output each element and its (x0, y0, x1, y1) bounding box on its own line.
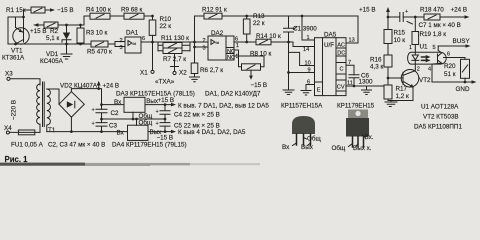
wire bridge plus to +24 rail (71, 89, 101, 110)
svg-text:Вх: Вх (282, 144, 290, 151)
svg-text:1: 1 (307, 35, 310, 41)
op-amp DA2 (203, 30, 239, 61)
wire DA2 output line (234, 41, 256, 43)
svg-text:R1 15к: R1 15к (6, 7, 26, 14)
node DA3 input tap (100, 103, 103, 106)
wire R2 to R3/R4 (58, 24, 84, 26)
wire R2 node up to R4 (84, 16, 90, 25)
+15V power flag (top) (359, 7, 390, 30)
svg-text:КС405А: КС405А (40, 58, 64, 65)
bottom rail (minus) (47, 131, 128, 133)
node R10 bottom (151, 41, 154, 44)
capacitor C5 (156, 119, 220, 132)
regulator DA4 (117, 125, 163, 140)
svg-text:К выв 4 DA1, DA2, DA5: К выв 4 DA1, DA2, DA5 (178, 129, 246, 136)
svg-text:Вых: Вых (301, 144, 314, 151)
wire U1 pin5 to BUSY (438, 45, 466, 47)
svg-text:C1 3900: C1 3900 (293, 26, 317, 33)
resistor R15 (384, 30, 406, 56)
node C4 tap (164, 103, 167, 106)
node R3 on rail (79, 43, 82, 46)
resistor R12 (202, 7, 227, 20)
svg-text:DA5: DA5 (324, 32, 337, 39)
svg-text:R4 100 к: R4 100 к (86, 7, 111, 14)
svg-text:R12 91 к: R12 91 к (202, 7, 227, 14)
package drawing KR1157EN15A (281, 103, 323, 151)
svg-text:−15 В: −15 В (57, 7, 74, 14)
regulator DA3 (114, 91, 195, 113)
wire DA2 balance pin1 (234, 50, 242, 67)
svg-text:X2: X2 (179, 70, 187, 77)
wire DA3 output +15V (145, 104, 172, 106)
svg-text:R19 1,8 к: R19 1,8 к (420, 31, 447, 38)
+15V power flag (left arrow) (30, 23, 47, 35)
capacitor C7 (388, 9, 461, 29)
wire R1 to -15V arrow (45, 9, 50, 11)
capacitor C1 (284, 16, 318, 42)
resistor R6 (191, 63, 223, 74)
zener diode VD1 (40, 25, 71, 65)
wire R1 left to VT1 base (24, 10, 32, 30)
node VT2 base (387, 77, 390, 80)
svg-text:U1 АОТ128А: U1 АОТ128А (421, 104, 459, 111)
capacitor C3 (92, 121, 118, 132)
wire bridge minus drop (70, 117, 72, 132)
svg-text:R10: R10 (160, 16, 172, 23)
resistor R19 (412, 17, 446, 50)
svg-text:VT2 КТ503В: VT2 КТ503В (423, 114, 459, 121)
node bridge minus (70, 130, 73, 133)
part list middle (48, 91, 261, 149)
+15V output arrow (158, 97, 270, 110)
IC DA5 U/F converter (315, 32, 347, 96)
resistor R7 (163, 48, 186, 63)
ground under R17 / VT2 emitter (385, 101, 413, 107)
trimmer R8 (242, 51, 272, 80)
svg-text:1: 1 (409, 45, 412, 51)
package drawing KR1179EN15 (332, 103, 375, 152)
svg-text:+15 В: +15 В (359, 7, 376, 14)
svg-text:КТ361А: КТ361А (2, 55, 25, 62)
svg-text:5,1 к: 5,1 к (46, 35, 60, 42)
svg-text:+: + (405, 9, 408, 15)
ground under VD1 (61, 44, 72, 59)
svg-text:22 к: 22 к (160, 23, 172, 30)
svg-text:4: 4 (428, 66, 431, 72)
wire DA5 pin11 to R17 (346, 85, 384, 87)
svg-text:14: 14 (303, 47, 309, 53)
wire X3 to transformer (10, 79, 40, 85)
svg-text:U1: U1 (420, 44, 429, 51)
resistor R18 (403, 7, 444, 21)
wire DA3 common (132, 112, 134, 119)
svg-text:Вх: Вх (114, 99, 122, 106)
svg-text:AC: AC (337, 43, 345, 49)
node at loop/base (22, 16, 25, 19)
svg-text:Общ: Общ (332, 144, 347, 152)
resistor R13 (243, 13, 265, 42)
wire primary bottom to fuse (39, 124, 41, 132)
node R3 top (79, 24, 82, 27)
node DA4 common (135, 118, 138, 121)
GND flag (456, 80, 477, 93)
node pin9 junction (287, 71, 290, 74)
wire U1 pin6 to R20 (464, 58, 466, 60)
svg-text:Общ: Общ (307, 135, 322, 143)
resistor R9 (121, 7, 144, 20)
svg-text:DA5 КР1108ПП1: DA5 КР1108ПП1 (414, 124, 462, 131)
node on top line (301, 15, 304, 18)
bottom page-edge shadow (0, 163, 85, 166)
resistor R20 (444, 59, 470, 82)
wire DA1 output line (141, 41, 208, 43)
main rail (left, y=44) (8, 43, 91, 45)
node R19 top (414, 16, 417, 19)
svg-text:BUSY: BUSY (453, 38, 471, 45)
wire DA5 pin13 to top line corner (346, 16, 358, 43)
capacitor C2 (92, 108, 120, 123)
svg-text:+15 В: +15 В (158, 97, 175, 104)
terminal X3 (5, 71, 13, 81)
svg-text:R20: R20 (444, 63, 456, 70)
svg-text:К выв. 7 DA1, DA2, выв 12 DA5: К выв. 7 DA1, DA2, выв 12 DA5 (178, 103, 269, 110)
wire DA5 pin6/E ground (301, 85, 315, 96)
svg-text:+24 В: +24 В (103, 83, 120, 90)
svg-text:X1: X1 (140, 70, 148, 77)
node R13 top (245, 15, 248, 18)
svg-text:FU1 0,05 А: FU1 0,05 А (11, 142, 44, 149)
svg-text:CV: CV (337, 85, 345, 91)
svg-text:11: 11 (347, 80, 353, 86)
svg-text:4,3 к: 4,3 к (370, 64, 384, 71)
svg-text:R2: R2 (50, 28, 59, 35)
common rail (102, 118, 166, 120)
svg-text:R3 10 к: R3 10 к (86, 30, 108, 37)
svg-text:C: C (340, 67, 344, 73)
svg-text:DA3 КР1157ЕН15А (78L15): DA3 КР1157ЕН15А (78L15) (116, 91, 195, 98)
svg-text:КР1179ЕН15: КР1179ЕН15 (337, 103, 375, 110)
bridge rectifier VD2 (59, 83, 98, 118)
wire R5 to DA1 inputs (108, 42, 125, 47)
svg-text:C7 1 мк × 40 В: C7 1 мк × 40 В (419, 22, 461, 29)
node C1 line (287, 41, 290, 44)
transformer T1 (37, 82, 56, 134)
svg-text:2: 2 (417, 67, 420, 73)
resistor R4 (86, 7, 111, 20)
node DA3 common (132, 118, 135, 121)
svg-text:10 к: 10 к (394, 37, 406, 44)
svg-text:+: + (92, 108, 95, 114)
node VT1 collector on rail (14, 43, 17, 46)
svg-text:3: 3 (203, 46, 206, 52)
svg-text:+: + (92, 121, 95, 127)
svg-text:51 к: 51 к (444, 71, 456, 78)
wire VT1 emitter loop (8, 17, 24, 44)
terminal X2 (171, 54, 188, 77)
transistor VT2 (401, 69, 431, 101)
svg-text:C2, C3 47 мк × 40 В: C2, C3 47 мк × 40 В (48, 142, 105, 149)
svg-text:1,2 к: 1,2 к (396, 93, 410, 100)
svg-text:DA2: DA2 (211, 30, 224, 37)
paper background (0, 0, 480, 166)
node common rail left (100, 118, 103, 121)
wire R4 to R9 (110, 15, 124, 17)
svg-text:U/F: U/F (324, 42, 334, 49)
svg-text:3: 3 (120, 45, 123, 51)
node R13 bottom (245, 41, 248, 44)
node common rail right (164, 118, 167, 121)
svg-text:+: + (156, 121, 159, 127)
optocoupler U1 (408, 44, 465, 73)
svg-text:«ТХА»: «ТХА» (155, 79, 175, 86)
terminal X1 (140, 42, 154, 77)
svg-text:+24 В: +24 В (451, 7, 468, 14)
wire top feedback line y=16 (195, 15, 359, 17)
capacitor C4 (156, 105, 220, 119)
svg-text:R15: R15 (394, 30, 406, 37)
svg-text:R11 130 к: R11 130 к (161, 35, 189, 42)
resistor R5 (87, 41, 112, 56)
wire base lead (388, 77, 403, 79)
wire DA4 common (136, 119, 138, 125)
node DA2 pin3 tap (193, 46, 196, 49)
wire secondary bottom to rail (46, 125, 48, 132)
wire DA5 pin7 to C6 (346, 65, 354, 75)
svg-text:DA4 КР1179ЕН15 (79L15): DA4 КР1179ЕН15 (79L15) (112, 142, 187, 149)
-15V output arrow (157, 129, 246, 141)
resistor R2 (44, 22, 60, 42)
svg-text:C4 22 мк × 25 В: C4 22 мк × 25 В (174, 112, 220, 119)
feedback pair verticals (158, 42, 190, 51)
svg-text:5: 5 (433, 45, 436, 51)
op-amp DA1 (120, 30, 146, 54)
node R12 drop (193, 41, 196, 44)
ground under C1 line (283, 90, 294, 95)
wire DA5 pin1 (302, 16, 315, 40)
svg-text:Вых х.: Вых х. (353, 145, 372, 152)
svg-text:∞: ∞ (133, 42, 137, 48)
svg-text:GND: GND (456, 86, 470, 93)
node C5 bottom (164, 130, 167, 133)
wire C1 line down to pins 10/9 and ground (289, 42, 315, 90)
svg-text:−15 В: −15 В (251, 82, 268, 89)
node VD1 top (65, 24, 68, 27)
node R9/R10 (151, 15, 154, 18)
svg-text:R16: R16 (370, 57, 382, 64)
svg-text:22 к: 22 к (253, 20, 265, 27)
svg-text:10: 10 (305, 61, 311, 67)
ground under R6 (190, 74, 200, 82)
+24V power flag (top right) (440, 7, 470, 19)
svg-text:R8 10 к: R8 10 к (250, 51, 272, 58)
transistor VT1 (2, 28, 29, 62)
svg-text:+15 В: +15 В (30, 28, 47, 35)
svg-text:−15 В: −15 В (157, 134, 174, 141)
node R20 bottom (464, 81, 467, 84)
svg-text:∞: ∞ (216, 41, 220, 47)
wire R9 to R10 node (144, 15, 153, 17)
svg-text:VD1: VD1 (46, 51, 59, 58)
resistor R11 (161, 35, 189, 48)
wire to DA3 input (102, 104, 125, 106)
svg-text:+: + (156, 109, 159, 115)
svg-text:Вх.: Вх. (365, 134, 374, 141)
wire DA2 balance pin5 (234, 56, 264, 67)
svg-text:R13: R13 (253, 13, 265, 20)
svg-text:9: 9 (308, 67, 311, 73)
svg-text:E: E (317, 88, 321, 94)
+24V power flag (supply) (97, 81, 119, 90)
svg-text:VT1: VT1 (11, 48, 23, 55)
BUSY output arrow (453, 38, 471, 48)
wire U1 pin4 to GND rail (432, 70, 472, 82)
resistor R1 (6, 7, 45, 14)
resistor R16 (370, 55, 392, 85)
svg-text:КР1157ЕН15А: КР1157ЕН15А (281, 103, 323, 110)
node C3 bottom (100, 130, 103, 133)
ground on pin11 line (362, 86, 372, 95)
resistor R14 (256, 33, 281, 45)
resistor R10 (149, 16, 171, 42)
svg-text:~220 В: ~220 В (11, 100, 18, 120)
resistor R17 (384, 85, 409, 101)
wire DA2 pin3 stub (195, 46, 209, 48)
node C2 tap (97, 87, 100, 90)
svg-text:C2: C2 (111, 110, 120, 117)
svg-text:R18 470: R18 470 (420, 7, 444, 14)
resistor R3 (77, 25, 108, 44)
wire R14 to DA5 pin14 (271, 42, 315, 47)
-15V power flag (50, 7, 74, 14)
svg-text:R6 2,7 к: R6 2,7 к (200, 67, 223, 74)
svg-text:2: 2 (203, 38, 206, 44)
node VD1 on rail (65, 43, 68, 46)
capacitor C6 (349, 73, 373, 87)
svg-text:R9 68 к: R9 68 к (121, 7, 143, 14)
svg-text:T1: T1 (48, 127, 56, 134)
svg-text:VT2: VT2 (419, 77, 431, 84)
svg-text:6: 6 (447, 52, 450, 58)
svg-text:Вх: Вх (117, 129, 125, 136)
svg-text:1300: 1300 (359, 79, 374, 86)
svg-text:2: 2 (120, 38, 123, 44)
wire R12 drop / R6 vertical (194, 16, 196, 63)
wire DA4 output -15V (148, 131, 172, 133)
wire secondary top to bridge (47, 89, 59, 104)
svg-text:R5 470 к: R5 470 к (87, 49, 112, 56)
DA5 pin numbers (303, 35, 355, 86)
svg-text:X3: X3 (5, 71, 13, 78)
fuse FU1 (9, 130, 43, 149)
part list right (414, 104, 462, 131)
svg-text:DA1: DA1 (126, 30, 139, 37)
svg-text:6: 6 (142, 36, 145, 42)
svg-text:DC: DC (337, 51, 345, 57)
terminal X4 (4, 125, 12, 134)
svg-text:R14 10 к: R14 10 к (256, 33, 281, 40)
node C7 tap (387, 16, 390, 19)
svg-text:1: 1 (236, 43, 239, 49)
node C6 bottom (353, 85, 356, 88)
svg-text:DA1, DA2 К140УД7: DA1, DA2 К140УД7 (205, 91, 261, 98)
